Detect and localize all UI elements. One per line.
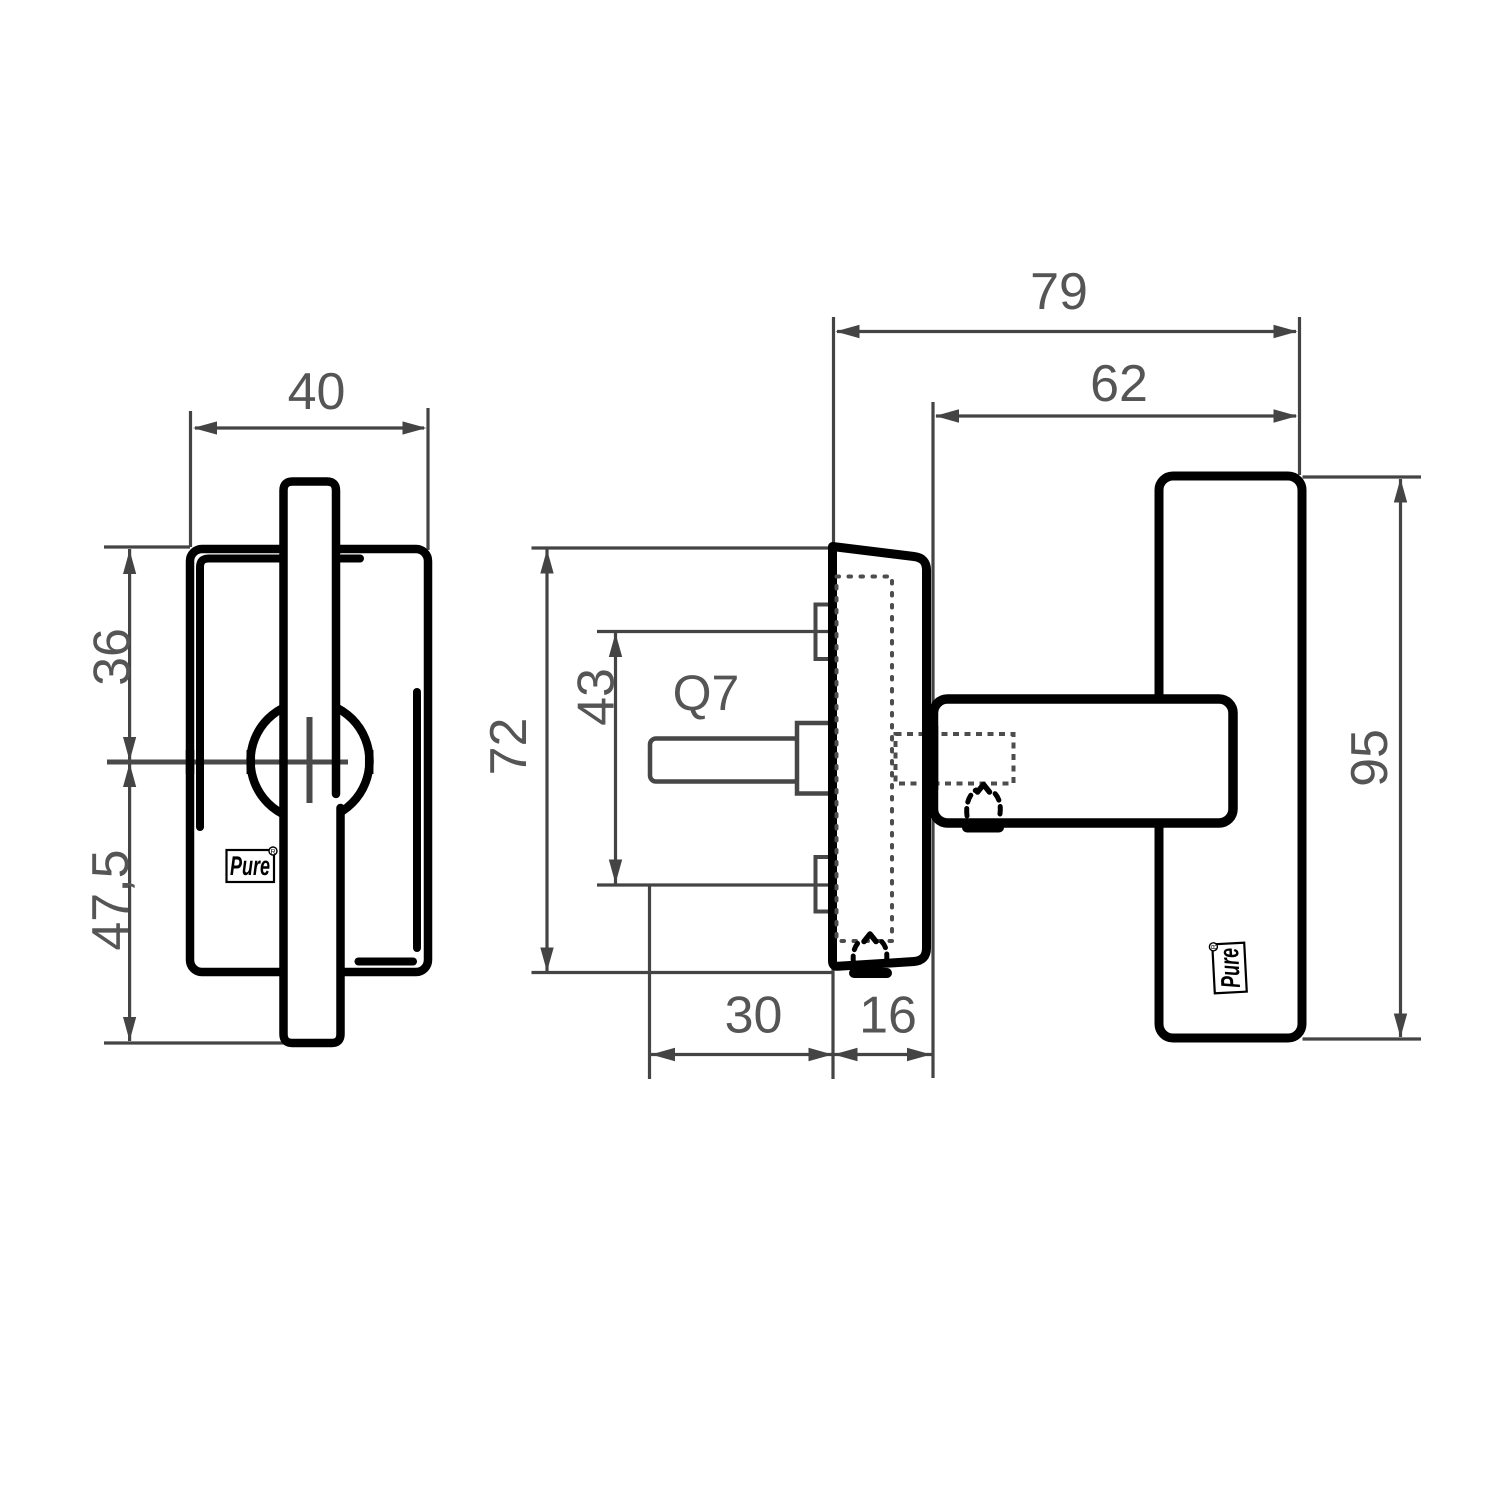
- dimension texts: [82, 263, 1399, 1045]
- arrow 47.5 top: [123, 763, 136, 787]
- svg-text:47,5: 47,5: [82, 849, 140, 950]
- extension line below plate left: [831, 964, 834, 1079]
- boss circle: [251, 702, 370, 821]
- extension line 95 top: [1303, 475, 1422, 478]
- extension line 72 bottom: [532, 971, 834, 974]
- extension line 79 left: [832, 317, 835, 546]
- arrow 40 left: [193, 421, 217, 434]
- label 43: [568, 668, 626, 726]
- label 72: [480, 718, 538, 776]
- svg-text:16: 16: [859, 987, 917, 1045]
- backplate inner edge top-left segment: [200, 559, 360, 828]
- svg-text:40: 40: [288, 363, 346, 421]
- handle bar side view: [1159, 476, 1302, 1038]
- arrow 95 bottom: [1394, 1014, 1407, 1038]
- label 95: [1341, 729, 1399, 787]
- arrow 79 left: [836, 325, 860, 338]
- dimension line 95: [1399, 479, 1402, 1037]
- dimension line 36 / 47.5 vertical: [128, 549, 131, 1041]
- spindle adapter block: [797, 723, 833, 794]
- extension line bottom 47.5: [104, 1041, 299, 1044]
- patch plate left edge over centerline: [186, 750, 195, 774]
- svg-text:R: R: [270, 849, 275, 856]
- dimension line 30 and 16: [651, 1053, 932, 1056]
- arrow 16 left: [834, 1048, 858, 1061]
- extension line 43 top: [597, 630, 828, 633]
- dimension line 40: [195, 426, 424, 429]
- latch arc in neck (dashed dome): [967, 790, 976, 816]
- spindle rod: [650, 739, 800, 782]
- backplate inner edge right segment: [413, 692, 421, 948]
- svg-text:30: 30: [725, 987, 783, 1045]
- arrow 62 right: [1274, 409, 1298, 422]
- extension line 62/16 right of plate: [931, 402, 934, 1078]
- arrow 30 right: [809, 1048, 833, 1061]
- svg-text:Q7: Q7: [673, 665, 740, 721]
- extension line 79/62 right: [1298, 317, 1301, 475]
- arrow 47.5 bottom: [123, 1017, 136, 1041]
- arrow 72 bottom: [540, 948, 553, 972]
- dimension line 72: [545, 549, 548, 972]
- extension line 40 left: [189, 411, 192, 547]
- extension line 40 right: [426, 408, 429, 550]
- patch plate right edge over dots: [922, 726, 931, 790]
- latch clip bar under plate: [854, 968, 887, 978]
- dimension line 43: [614, 633, 617, 885]
- svg-text:43: 43: [568, 668, 626, 726]
- svg-text:Pure: Pure: [230, 851, 270, 881]
- arrow 95 top: [1394, 479, 1407, 503]
- patch inner edge over centerline: [196, 750, 204, 774]
- hidden backplate dotted rect: [837, 577, 893, 942]
- extension line 43 bottom: [597, 883, 828, 886]
- svg-text:79: 79: [1030, 263, 1088, 321]
- backplate outer rounded rect: [190, 549, 428, 972]
- Pure logo front view: [227, 847, 278, 882]
- label 36: [84, 628, 142, 686]
- handle bar fill: [284, 482, 341, 1044]
- arrow 43 top: [609, 633, 622, 657]
- extension line 36 top: [104, 545, 190, 548]
- latch apex chevron at plate bottom: [864, 934, 876, 942]
- top fixing tab: [816, 605, 834, 660]
- patch neck left edge over dots: [929, 726, 939, 790]
- Pure logo side view (rotated): [1209, 941, 1247, 993]
- patch circle left arc over centerline: [247, 750, 256, 774]
- svg-text:72: 72: [480, 718, 538, 776]
- label 47,5: [82, 849, 140, 950]
- mounting plate side view: [833, 547, 927, 967]
- svg-text:R: R: [1211, 944, 1218, 949]
- arrow 16 right: [907, 1048, 931, 1061]
- neck fill: [934, 699, 1234, 823]
- backplate inner edge bottom segment: [359, 958, 414, 966]
- arrow 40 right: [403, 421, 427, 434]
- bottom fixing tab: [816, 857, 834, 912]
- svg-text:62: 62: [1090, 355, 1148, 413]
- dimension line 79: [837, 330, 1296, 333]
- arrow 72 top: [540, 550, 553, 574]
- arrow 36 bottom: [123, 737, 136, 761]
- svg-text:95: 95: [1341, 729, 1399, 787]
- center line horizontal: [107, 760, 348, 765]
- svg-text:36: 36: [84, 628, 142, 686]
- latch arc at plate bottom (dashed dome): [853, 940, 862, 964]
- dimension line 62: [936, 414, 1296, 417]
- neck outline: [934, 699, 1234, 823]
- arrowheads: [123, 325, 1407, 1061]
- latch arc apex chevron: [978, 785, 990, 793]
- extension line 72 top: [532, 546, 834, 549]
- svg-text:Pure: Pure: [1214, 947, 1246, 989]
- hidden spindle dotted rect: [896, 734, 1014, 784]
- center line vertical: [307, 717, 313, 803]
- extension line 95 bottom: [1303, 1037, 1422, 1040]
- patch circle right arc over centerline: [365, 750, 374, 774]
- arrow 79 right: [1274, 325, 1298, 338]
- arrow 30 left: [651, 1048, 675, 1061]
- latch clip bar under neck: [967, 823, 999, 833]
- extension line 30 left: [648, 885, 651, 1079]
- arrow 62 left: [935, 409, 959, 422]
- arrow 43 bottom: [609, 860, 622, 884]
- arrow 36 top: [123, 550, 136, 574]
- handle bar outline: [284, 482, 341, 1044]
